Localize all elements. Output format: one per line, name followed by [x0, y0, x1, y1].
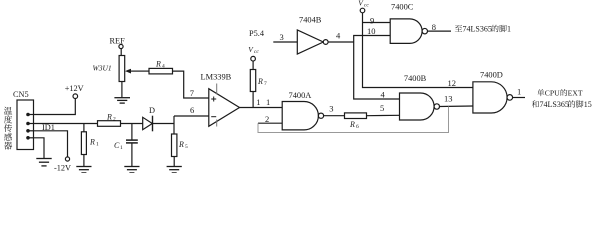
svg-text:R: R [155, 60, 161, 69]
svg-text:7404B: 7404B [299, 16, 322, 25]
svg-text:REF: REF [110, 36, 126, 45]
svg-text:R: R [89, 138, 95, 147]
svg-text:CN5: CN5 [13, 90, 29, 99]
svg-text:5: 5 [380, 103, 384, 113]
svg-text:3: 3 [329, 103, 333, 113]
svg-text:CPU: CPU [545, 89, 560, 98]
svg-text:7400D: 7400D [480, 71, 503, 80]
svg-text:cc: cc [364, 3, 369, 9]
label 温度传感器 vertical [4, 107, 12, 150]
svg-text:1: 1 [256, 97, 260, 107]
svg-text:7400A: 7400A [289, 91, 312, 100]
power terminal +12V [73, 94, 78, 99]
wire main net from CN5 pin2 [34, 123, 98, 125]
svg-text:9: 9 [370, 15, 374, 25]
svg-text:LM339B: LM339B [201, 73, 232, 82]
svg-text:ID1: ID1 [42, 123, 55, 132]
svg-text:W3U1: W3U1 [93, 64, 112, 73]
wire inverter output pin4 [328, 41, 354, 43]
resistor R7 [252, 61, 254, 70]
svg-text:3: 3 [280, 32, 284, 42]
label 单CPU的EXT [537, 89, 583, 98]
wire Vcc down to pin9 and pin12 rail [363, 13, 473, 88]
svg-text:1: 1 [266, 97, 270, 107]
wire R4 to comparator pin 7 [173, 71, 209, 98]
ground C1 [124, 167, 139, 173]
wire feedback from 7400B output to 7400A pin2 [258, 107, 449, 133]
capacitor C1 [131, 124, 133, 140]
power terminal -12V [65, 157, 69, 161]
svg-text:12: 12 [448, 78, 457, 88]
svg-text:15: 15 [584, 100, 592, 109]
wire 7400A output pin3 [323, 115, 344, 117]
resistor R6 [345, 113, 367, 119]
label 至74LS365的脚1 [455, 25, 511, 34]
wire R2 to diode [121, 123, 144, 125]
wire diode to junction [153, 123, 175, 125]
svg-text:cc: cc [254, 49, 259, 55]
node ID1 wire pin3 to -12V [34, 131, 68, 157]
svg-text:-12V: -12V [54, 164, 71, 173]
svg-text:4: 4 [162, 64, 165, 70]
svg-text:5: 5 [185, 144, 188, 150]
svg-text:7400B: 7400B [404, 74, 427, 83]
wire R6 to 7400B pin5 [367, 114, 400, 116]
ground R1 [76, 167, 91, 173]
label 和74LS365的脚15 [532, 100, 592, 109]
wire jog to 7400C pin10 and down to 7400B pin4 [354, 36, 400, 100]
svg-text:EXT: EXT [568, 89, 583, 98]
svg-text:R: R [257, 77, 263, 86]
wire 7400B output to 7400D pin13 [439, 105, 473, 108]
svg-text:7: 7 [190, 88, 194, 98]
wire pin2 of 7400A [258, 122, 282, 124]
ground pot [114, 98, 130, 103]
wire CN5 pin4 to ground [34, 138, 45, 159]
svg-text:+12V: +12V [65, 84, 84, 93]
svg-text:R: R [349, 120, 355, 129]
svg-text:7: 7 [264, 81, 267, 87]
connector CN5 [17, 100, 34, 150]
wire comparator output to 7400A pin1 [240, 107, 283, 109]
svg-text:1: 1 [507, 25, 511, 34]
resistor R2 [98, 121, 121, 127]
svg-text:D: D [149, 106, 155, 115]
comparator power stubs [216, 84, 218, 95]
svg-text:1: 1 [517, 87, 521, 97]
svg-text:R: R [178, 140, 184, 149]
svg-text:6: 6 [356, 124, 359, 130]
svg-text:2: 2 [265, 114, 269, 124]
svg-text:10: 10 [367, 26, 376, 36]
node junction diode/R5/pin6 [173, 116, 175, 134]
wire 7400D output pin1 [512, 97, 525, 99]
ground CN5 [36, 159, 51, 166]
svg-text:P5.4: P5.4 [249, 29, 265, 38]
resistor R5 [172, 134, 177, 157]
svg-text:13: 13 [444, 94, 453, 104]
svg-text:1: 1 [96, 142, 99, 148]
svg-text:6: 6 [190, 105, 194, 115]
svg-text:74LS365: 74LS365 [463, 25, 492, 34]
svg-text:8: 8 [432, 22, 436, 32]
svg-text:2: 2 [113, 116, 116, 122]
wire 7400C output pin8 [427, 30, 451, 32]
resistor R4 [138, 70, 150, 72]
svg-text:74LS365: 74LS365 [540, 100, 569, 109]
wire to comparator pin 6 [174, 115, 209, 117]
resistor R1 [83, 124, 85, 132]
potentiometer W3U1 [119, 56, 125, 82]
wire CN5 pin1 to +12V [34, 99, 76, 115]
ground R5 [167, 167, 182, 173]
svg-text:7400C: 7400C [391, 3, 414, 12]
svg-text:1: 1 [120, 145, 123, 151]
svg-text:R: R [106, 113, 112, 122]
